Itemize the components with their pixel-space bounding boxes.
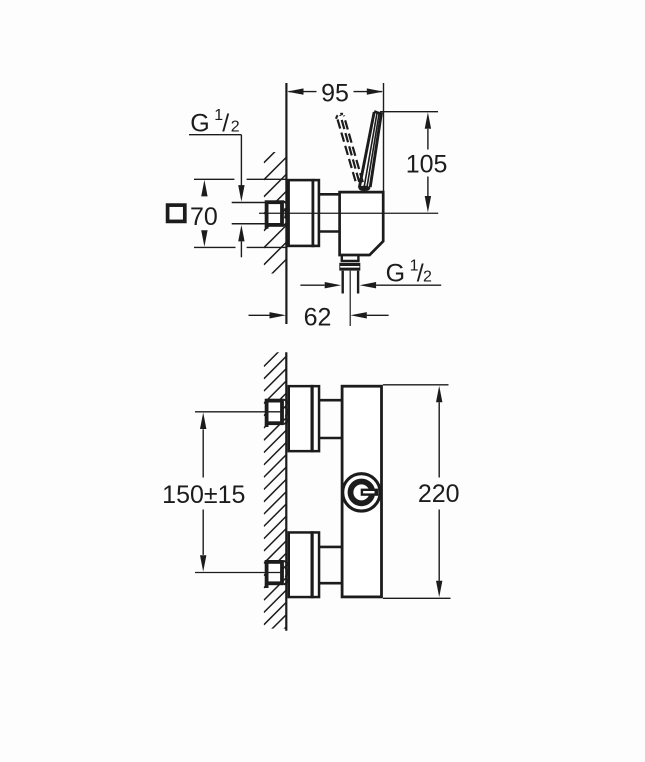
- outlet step: [341, 255, 360, 261]
- bottom inlet nut: [267, 561, 289, 588]
- wall (front view): [285, 352, 287, 631]
- square symbol: [168, 205, 185, 221]
- svg-text:2: 2: [231, 119, 240, 136]
- outlet thread G1/2: [343, 271, 358, 294]
- svg-text:G: G: [386, 259, 405, 287]
- dimension 220: [383, 385, 460, 599]
- bottom escutcheon (front view): [289, 531, 319, 598]
- svg-text:150±15: 150±15: [162, 481, 245, 509]
- outlet coupling nut: [339, 263, 360, 271]
- mixer body (front view): [342, 386, 381, 597]
- mixer body (side view): [340, 192, 384, 255]
- top connection stub: [319, 400, 342, 438]
- svg-text:2: 2: [423, 268, 432, 285]
- dimension 150±15: [162, 413, 245, 572]
- svg-text:G: G: [190, 109, 209, 137]
- svg-text:62: 62: [304, 304, 332, 332]
- wall hatching (side view): [264, 140, 287, 299]
- label G 1/2 (wall connection): [189, 107, 245, 202]
- svg-text:/: /: [222, 110, 229, 138]
- top inlet nut: [267, 400, 289, 427]
- svg-text:220: 220: [418, 480, 460, 508]
- escutcheon (side view): [289, 179, 319, 247]
- logo emblem: [343, 474, 380, 511]
- svg-text:70: 70: [190, 203, 218, 231]
- top escutcheon (front view): [289, 385, 319, 453]
- svg-text:105: 105: [406, 151, 448, 179]
- dimension 62: [249, 304, 389, 332]
- wall (side view): [285, 83, 287, 324]
- lever handle (dashed alternate position): [336, 114, 363, 182]
- bottom connection stub: [319, 547, 342, 583]
- dimension 95: [287, 80, 384, 191]
- outlet centerline: [349, 271, 351, 326]
- neck between escutcheon and body: [319, 194, 340, 231]
- wall hatching (front view): [264, 344, 287, 649]
- label G 1/2 (outlet): [300, 257, 441, 288]
- supply thread arrow (lower): [238, 225, 244, 257]
- extension lines 150±15: [195, 412, 284, 573]
- dimension 70: [190, 179, 287, 247]
- lever handle (solid): [359, 111, 382, 191]
- dimension 105: [380, 112, 448, 213]
- supply pipe stub: [232, 203, 266, 224]
- centerline (side view): [259, 212, 438, 214]
- svg-text:95: 95: [321, 80, 349, 108]
- wall union fitting: [267, 201, 288, 229]
